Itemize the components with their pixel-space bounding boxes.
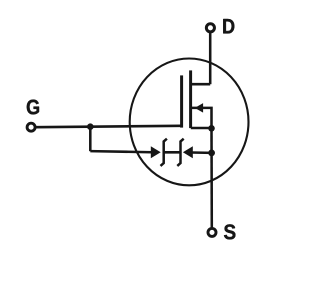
terminal G (gate pin circle)	[27, 123, 35, 131]
terminal D (drain pin circle)	[206, 24, 214, 32]
transistor Q1 package outline (circle)	[130, 59, 249, 186]
junction gate node	[87, 123, 94, 130]
wire zener row middle segment	[164, 151, 181, 154]
zener diode D1 anode triangle	[151, 146, 161, 158]
label G	[27, 100, 39, 115]
transistor Q1 gate electrode bar	[180, 75, 183, 127]
wire gate branch down to zeners	[89, 127, 92, 152]
wire source lead down to S terminal	[210, 128, 213, 228]
zener diode D2 anode triangle	[183, 146, 193, 158]
label S	[224, 224, 235, 239]
label D	[223, 19, 234, 33]
transistor Q1 body arrow (points to channel)	[196, 104, 203, 112]
zener diode D2 cathode bar with bent ends	[177, 139, 183, 166]
junction source node	[208, 125, 215, 132]
wire zener row left segment	[90, 151, 151, 152]
transistor Q1 channel bar	[189, 70, 192, 128]
wire gate: G terminal to gate bar	[35, 126, 181, 127]
wire drain lead: D terminal down to drain bar	[209, 33, 212, 84]
junction zener-source node	[208, 150, 215, 157]
zener diode D1 cathode bar with bent ends	[161, 139, 167, 166]
terminal S (source pin circle)	[208, 228, 216, 236]
wire drain bar of Q1	[191, 83, 210, 86]
wire body line to source	[191, 108, 212, 128]
wire zener row right segment	[192, 151, 212, 154]
